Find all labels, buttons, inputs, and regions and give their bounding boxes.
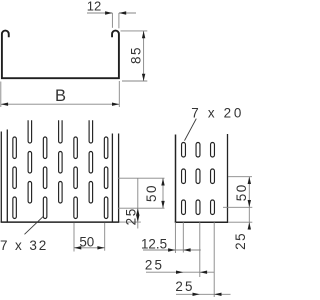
svg-text:25: 25 (145, 257, 164, 272)
svg-text:25: 25 (233, 232, 248, 250)
svg-text:B: B (55, 87, 66, 105)
svg-text:85: 85 (129, 46, 144, 64)
svg-text:12: 12 (87, 0, 101, 14)
svg-text:7 x 32: 7 x 32 (0, 238, 48, 253)
svg-text:12.5: 12.5 (141, 236, 167, 251)
svg-text:25: 25 (175, 279, 194, 294)
svg-text:7 x 20: 7 x 20 (191, 106, 244, 121)
svg-text:25: 25 (124, 207, 139, 225)
svg-text:50: 50 (144, 184, 159, 202)
svg-text:50: 50 (234, 183, 249, 201)
svg-text:50: 50 (79, 234, 94, 249)
